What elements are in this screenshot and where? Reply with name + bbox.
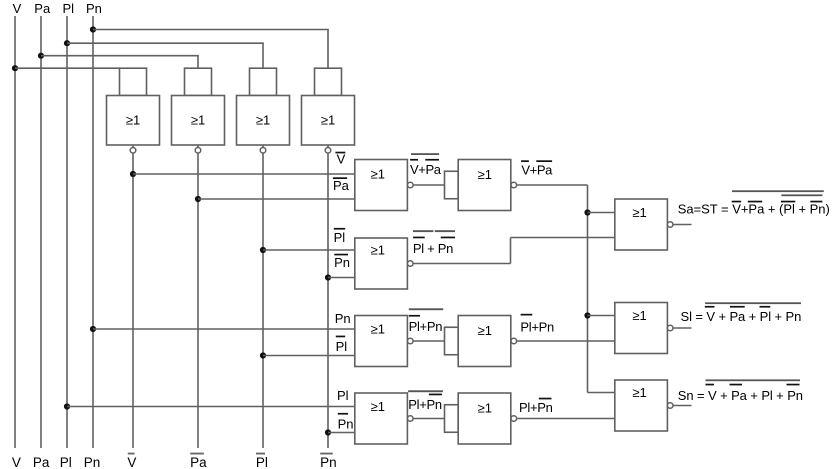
wire U6 output [517,184,588,186]
svg-text:Pn: Pn [320,455,337,469]
svg-text:≥1: ≥1 [371,399,385,414]
svg-text:Pl: Pl [60,455,72,469]
svg-text:V+Pa: V+Pa [521,163,553,178]
junction dot Pl feed [64,40,70,46]
wire Pl feed horizontal [67,42,264,44]
wire row2 output to Sa [511,237,615,239]
wire U9 input [413,340,445,342]
label row2 output (not(notPl+notPn)) [413,230,455,256]
svg-text:≥1: ≥1 [478,167,492,182]
junction dot row1 input NOT-Pa [195,196,201,202]
output bubble of U7 [408,261,414,267]
junction dot row3 input Pn [90,326,96,332]
NOR gate U10 [355,393,408,444]
NOR gate U8 [355,316,408,367]
svg-text:Pl: Pl [336,339,348,354]
wire U13 (Sl) output [673,327,691,329]
NOR gate U7 [355,238,408,289]
label equation Sn [678,379,803,403]
junction dot trunk to Sa [584,209,590,215]
wire trunk vertical [587,185,589,393]
NOR-inverter U6 [445,160,511,211]
wire row1 input1 [133,173,355,175]
wire U14 (Sn) output [673,405,691,407]
junction dot row2 input NOT-Pl [260,247,266,253]
wire U11 input [413,418,445,420]
wire trunk to Sn input1 [588,392,615,394]
junction dot trunk to Sl [584,312,590,318]
svg-text:≥1: ≥1 [478,323,492,338]
junction dot Pa feed [38,53,44,59]
output bubble of U5 [408,182,414,188]
NOR gate U14 (Sn) [615,380,668,431]
junction dot Pn feed [90,26,96,32]
NOR-inverter U2 (Pa inverter) [172,68,225,147]
svg-text:Pa: Pa [34,1,51,16]
node rail from U3 (Pl inverter) [262,153,264,448]
svg-text:Pn: Pn [84,455,101,469]
NOR gate U5 [355,160,408,211]
node rail from U4 (Pn inverter) [327,153,329,448]
svg-text:≥1: ≥1 [371,242,385,257]
label equation Sl [681,302,802,324]
svg-text:≥1: ≥1 [126,113,140,128]
node Pa input rail [40,16,42,448]
output bubble of U4 (Pn inverter) [325,148,331,154]
svg-text:≥1: ≥1 [321,113,335,128]
svg-text:Sl = V + Pa + Pl + Pn: Sl = V + Pa + Pl + Pn [681,309,802,324]
output bubble of U2 (Pa inverter) [195,148,201,154]
NOR-inverter U3 (Pl inverter) [237,68,290,147]
svg-text:Pl + Pn: Pl + Pn [413,241,453,256]
svg-text:Pn: Pn [335,311,351,326]
svg-text:≥1: ≥1 [632,205,646,220]
svg-text:Pa: Pa [190,455,207,469]
wire row4 input1 [67,406,355,408]
junction dot row1 input NOT-V [130,171,136,177]
wire row2 output horizontal [413,263,510,265]
node Pl input rail [66,16,68,448]
svg-text:V+Pa: V+Pa [410,162,442,177]
svg-text:Pn: Pn [86,1,102,16]
output bubble of U8 [408,338,414,344]
NOR-inverter U9 [445,316,511,367]
svg-text:Pl+Pn: Pl+Pn [408,397,442,412]
svg-text:Pl: Pl [334,230,346,245]
wire row3 input1 [93,328,355,330]
svg-text:≥1: ≥1 [371,321,385,336]
svg-text:Sa=ST = V+Pa + (Pl + Pn): Sa=ST = V+Pa + (Pl + Pn) [678,202,830,217]
svg-text:Pl+Pn: Pl+Pn [409,319,443,334]
svg-text:Pl+Pn: Pl+Pn [520,319,554,334]
svg-text:≥1: ≥1 [632,308,646,323]
wire U6 input [413,184,445,186]
svg-text:Pn: Pn [338,416,354,431]
svg-text:Pa: Pa [33,455,50,469]
NOR-inverter U4 (Pn inverter) [302,68,355,147]
junction dot row4 input Pl [64,403,70,409]
output bubble of U3 (Pl inverter) [260,148,266,154]
svg-text:≥1: ≥1 [191,113,205,128]
wire row2 input1 [263,249,355,251]
output bubble of U12 (Sa) [667,222,673,228]
output bubble of U10 [408,416,414,422]
output bubble of U14 (Sn) [667,403,673,409]
node rail from U2 (Pa inverter) [197,153,199,448]
output bubble of U11 [511,416,517,422]
junction dot row2 input NOT-Pn [325,274,331,280]
svg-text:Pa: Pa [333,178,350,193]
label U9 output (notPl+Pn) [520,314,554,335]
wire V feed horizontal [15,67,120,69]
svg-text:Sn = V + Pa + Pl + Pn: Sn = V + Pa + Pl + Pn [678,388,803,403]
wire U12 (Sa) output [673,224,691,226]
wire Pn feed drop [327,30,329,69]
wire row2 output riser [510,238,512,264]
svg-text:≥1: ≥1 [478,400,492,415]
svg-text:Pl: Pl [337,388,349,403]
output bubble of U13 (Sl) [667,325,673,331]
wire trunk to Sl input1 [588,315,615,317]
svg-text:Pl: Pl [256,455,268,469]
NOR gate U13 (Sl) [615,303,668,354]
node rail from U1 (V inverter) [132,153,134,448]
NOR-inverter U1 (V inverter) [107,68,160,147]
junction dot row3 input NOT-Pl [260,352,266,358]
wire row4 input2 [328,432,355,434]
wire Pa feed drop [197,56,199,68]
label NOR output row4 (not(Pl+notPn)) [408,390,443,412]
label NOR output row3 (not(notPl+Pn)) [409,308,444,334]
node V input rail [14,16,16,448]
wire U9 output to Sl [517,340,615,342]
svg-text:≥1: ≥1 [371,166,385,181]
svg-text:V: V [127,455,136,469]
label NOR output row1 (not(notV+notPa)) [410,153,442,177]
wire U11 output to Sn [517,418,615,420]
label U11 output (Pl+notPn) [519,398,553,415]
wire row3 input2 [263,355,355,357]
wire Pl feed drop [262,43,264,68]
output bubble of U1 (V inverter) [130,148,136,154]
svg-text:Pn: Pn [334,255,350,270]
svg-text:V: V [13,1,22,16]
label U6 output (notV+notPa) [521,160,553,177]
svg-text:V: V [12,455,21,469]
wire Pa feed horizontal [41,55,199,57]
wire trunk to Sa input1 [588,212,615,214]
svg-text:Pl: Pl [63,1,75,16]
NOR gate U12 (Sa) [615,199,668,250]
wire row1 input2 [198,198,355,200]
node Pn input rail [92,16,94,448]
output bubble of U6 [511,182,517,188]
svg-text:Pl+Pn: Pl+Pn [519,400,553,415]
junction dot row4 input NOT-Pn [325,429,331,435]
svg-text:≥1: ≥1 [632,385,646,400]
wire Pn feed horizontal [93,29,329,31]
svg-text:V: V [337,151,346,166]
label equation Sa [678,190,830,216]
svg-text:≥1: ≥1 [256,113,270,128]
NOR-inverter U11 [445,393,511,444]
junction dot V feed [12,65,18,71]
output bubble of U9 [511,338,517,344]
wire row2 input2 [328,277,355,279]
